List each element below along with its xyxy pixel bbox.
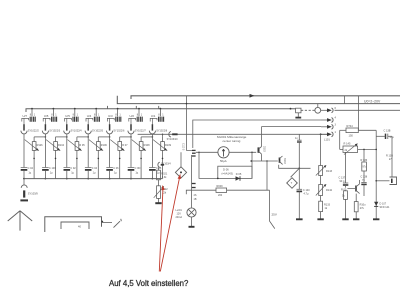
wire riser bus A-B at x344 [344, 96, 346, 104]
svg-text:U/2: U/2 [130, 114, 135, 118]
svg-text:(=AA143): (=AA143) [222, 172, 234, 176]
diode pin [44, 124, 46, 130]
trimmer arrow [68, 140, 82, 151]
wire lamp row to R009 [186, 190, 216, 194]
wire trimmer link [56, 136, 67, 138]
capacitor C 103 [42, 167, 49, 169]
capacitor 1n [295, 134, 302, 145]
svg-text:97o: 97o [363, 166, 368, 169]
svg-text:R104: R104 [58, 144, 65, 147]
resistor R009 [216, 185, 227, 197]
svg-text:8: 8 [30, 114, 32, 117]
wire contact to pin [151, 118, 153, 124]
junction dot rail [160, 108, 162, 110]
connector contact wire [65, 118, 72, 121]
trimmer arrow [132, 140, 146, 151]
svg-text:40: 40 [78, 225, 81, 229]
connector contact wire [129, 118, 136, 121]
svg-text:SY1022/8: SY1022/8 [156, 130, 168, 133]
connector socket right edge [375, 177, 396, 185]
trimmer arrow [46, 140, 60, 151]
wire cathode down [66, 134, 68, 167]
ground bar chain [155, 202, 161, 204]
antenna symbol [8, 211, 33, 231]
inductor winding 3 [262, 126, 321, 128]
svg-text:R143: R143 [326, 170, 333, 173]
wire rail drop [95, 109, 97, 117]
svg-text:U/4: U/4 [87, 114, 92, 118]
wire trimmer bottom [119, 150, 121, 178]
wire rail drop [31, 109, 33, 117]
capacitor C138b 47u [376, 129, 394, 177]
svg-text:SY103/4: SY103/4 [161, 163, 171, 166]
diode pin [109, 124, 111, 130]
tuning stage 7 [149, 108, 171, 180]
svg-text:C 06: C 06 [113, 167, 119, 170]
wire capacitor down [87, 171, 89, 179]
red arrow to TP1 diamond [160, 174, 181, 272]
svg-text:SY103/9: SY103/9 [28, 191, 39, 195]
svg-text:4: 4 [335, 117, 337, 120]
wire trimmer link [34, 136, 45, 138]
wire trimmer link [141, 136, 152, 138]
junction dot bus [152, 178, 154, 180]
svg-text:1: 1 [119, 114, 121, 117]
connector contact wire [150, 118, 157, 121]
wire chain [158, 167, 160, 170]
trimmer arrow [153, 140, 167, 151]
capacitor pair plates [52, 117, 54, 122]
junction arrow on bus A [250, 94, 255, 98]
wire bus line A [131, 96, 400, 99]
wire supply drop down [266, 161, 268, 190]
wire contact to pin [130, 118, 132, 124]
svg-text:200: 200 [218, 194, 223, 197]
trimmer R142 [316, 184, 333, 196]
capacitor pair plates [73, 117, 75, 122]
svg-text:4S: 4S [194, 194, 197, 197]
wire T3 emitter to node [279, 165, 311, 169]
svg-text:R106: R106 [101, 144, 108, 147]
wire cathode down [87, 134, 89, 167]
svg-text:1µ: 1µ [114, 172, 117, 175]
tuning capacitor rotor circle [315, 104, 321, 114]
svg-text:SY1022/5: SY1022/5 [92, 130, 104, 133]
wire 25V open end [270, 190, 275, 228]
resistor R104 27k [354, 194, 366, 219]
capacitor pair plates [94, 117, 96, 122]
svg-text:1µ: 1µ [50, 172, 53, 175]
svg-text:C 05: C 05 [156, 167, 162, 170]
wire trimmer top [162, 137, 164, 142]
svg-text:C 04: C 04 [92, 167, 98, 170]
svg-text:C 140: C 140 [303, 189, 310, 192]
svg-text:302/2: 302/2 [263, 146, 265, 152]
svg-text:C 04: C 04 [28, 167, 34, 170]
svg-text:8: 8 [115, 114, 117, 117]
connector contact wire [43, 118, 50, 121]
ground bar D107 col [373, 218, 379, 220]
junction dot bus [109, 178, 111, 180]
svg-text:C113 5: C113 5 [182, 143, 184, 151]
wire trimmer link [120, 136, 131, 138]
inductor winding 4 L101 [321, 133, 327, 135]
inductor winding 1 [321, 109, 327, 111]
wire capacitor down [44, 171, 46, 179]
svg-text:SY1022/4: SY1022/4 [71, 130, 83, 133]
wire capacitor down [66, 171, 68, 179]
capacitor pair plates [137, 117, 139, 122]
wire T2 emitter to T3 base [251, 160, 277, 162]
svg-text:C 103: C 103 [49, 167, 56, 170]
ground bar lamp [191, 217, 193, 226]
wire capacitor down [109, 171, 111, 179]
svg-text:1: 1 [34, 114, 36, 117]
resistor R136 [361, 149, 368, 171]
svg-text:SY1022/6: SY1022/6 [113, 130, 125, 133]
test point diamond TP1 [175, 152, 186, 178]
capacitor C140 [296, 189, 310, 219]
svg-text:150: 150 [349, 134, 354, 138]
wire trimmer top [55, 137, 57, 142]
junction dot bus [87, 178, 89, 180]
wire line to L101 [138, 133, 328, 135]
tuning stage 6 [128, 108, 154, 180]
trimmer arrow [25, 140, 39, 151]
trimmer resistor R106 [97, 142, 101, 151]
meter Mx001 [218, 147, 229, 164]
wire trimmer top [119, 137, 121, 142]
wire contact to pin [109, 118, 111, 124]
tuning stage 5 [106, 108, 132, 180]
svg-text:3: 3 [335, 123, 337, 126]
wire rail drop [138, 109, 140, 117]
svg-text:8: 8 [94, 114, 96, 117]
svg-text:1µ: 1µ [135, 172, 138, 175]
svg-text:1: 1 [77, 114, 79, 117]
svg-text:L101: L101 [324, 138, 330, 142]
test point diamond TP2 [287, 168, 300, 188]
wire trimmer bottom [33, 150, 35, 178]
trimmer arrow [89, 140, 103, 151]
svg-text:R 145: R 145 [344, 142, 351, 146]
svg-text:R 07: R 07 [122, 144, 128, 147]
svg-text:U/3: U/3 [108, 114, 113, 118]
connector SY103/4 [158, 162, 171, 167]
junction dot rail [53, 108, 55, 110]
junction dot rail [95, 108, 97, 110]
junction dot bus [45, 178, 47, 180]
svg-text:8: 8 [73, 114, 75, 117]
resistor R744 [340, 124, 377, 219]
wire cathode down [151, 134, 153, 167]
connector SY103/10 [167, 132, 179, 142]
junction dot rail [31, 108, 33, 110]
diode pin [87, 124, 89, 130]
diode pin [66, 124, 68, 130]
wire drop bus A to R744 line [358, 96, 360, 131]
svg-text:3,3k: 3,3k [162, 176, 167, 179]
frame box outer [45, 217, 102, 232]
wire contact to pin [44, 118, 46, 124]
trimmer arrow [110, 140, 124, 151]
dashed gang link [301, 109, 315, 111]
capacitor pair plates [116, 117, 118, 122]
svg-text:SY103/10: SY103/10 [167, 138, 179, 141]
wire cathode down [23, 134, 25, 167]
svg-text:U/7: U/7 [23, 114, 28, 118]
svg-text:SY1022/3: SY1022/3 [49, 130, 61, 133]
wire frame to switch [102, 221, 113, 223]
wire capacitor down [23, 171, 25, 179]
svg-text:8: 8 [137, 114, 139, 117]
ground bar [296, 218, 303, 220]
svg-text:C 13B: C 13B [384, 129, 391, 132]
junction dot rail [138, 108, 140, 110]
wire trimmer top [33, 137, 35, 142]
wire node down [298, 145, 300, 189]
svg-text:C 02: C 02 [70, 167, 76, 170]
wire trimmer bottom [76, 150, 78, 178]
connector contact wire [107, 118, 114, 121]
svg-text:6: 6 [335, 107, 337, 110]
switch blade [114, 221, 121, 227]
wire drop to meter transistor [187, 96, 193, 151]
svg-text:R021: R021 [161, 173, 168, 176]
capacitor C 04 [85, 167, 92, 169]
svg-text:1µ: 1µ [71, 172, 74, 175]
trimmer resistor R 07 [118, 142, 122, 151]
wire rail drop [117, 109, 119, 117]
svg-text:SFD 141: SFD 141 [380, 206, 390, 209]
diode D107 [374, 202, 390, 209]
capacitor C 04 [21, 167, 28, 169]
svg-text:1B: 1B [194, 198, 197, 201]
svg-text:1µ: 1µ [93, 172, 96, 175]
junction dot rail [117, 108, 119, 110]
wire trimmer top [140, 137, 142, 142]
junction dot bus [66, 178, 68, 180]
diode box D06 [218, 166, 252, 178]
svg-text:R 05: R 05 [79, 144, 85, 147]
ground bar R133 [317, 218, 323, 220]
svg-text:R133: R133 [324, 204, 331, 207]
svg-text:R142: R142 [326, 189, 333, 192]
svg-text:20mA: 20mA [176, 216, 183, 219]
svg-text:1: 1 [335, 131, 337, 134]
tuning stage 3 [64, 108, 89, 180]
svg-text:U/5: U/5 [44, 114, 49, 118]
svg-text:R009: R009 [217, 185, 224, 188]
wire rail drop [159, 109, 161, 117]
wire contact to pin [23, 118, 25, 124]
wire contact to pin [66, 118, 68, 124]
svg-text:1k: 1k [325, 207, 328, 210]
wire cathode down [109, 134, 111, 167]
connector cup [85, 131, 91, 134]
svg-text:1: 1 [98, 114, 100, 117]
svg-text:1µ: 1µ [157, 172, 160, 175]
connector cup [149, 131, 155, 134]
wire R009 to diagonal [227, 189, 270, 191]
diode D05 [236, 176, 241, 181]
diode pin [151, 124, 153, 130]
svg-text:25V: 25V [272, 213, 277, 217]
lamp Lu01 [176, 208, 197, 219]
svg-text:SY1022/7: SY1022/7 [135, 130, 147, 133]
svg-text:R126: R126 [37, 144, 44, 147]
connector pins 48 4S 1B [192, 184, 197, 201]
trimmer R022 [154, 186, 169, 199]
wire trimmer top [76, 137, 78, 142]
capacitor C137 [339, 152, 349, 187]
inductor winding 2 [321, 119, 327, 121]
svg-text:1: 1 [55, 114, 57, 117]
ground bar T4 col [353, 218, 359, 220]
diode pin [23, 124, 25, 130]
svg-text:U/5: U/5 [65, 114, 70, 118]
wire rail drop [52, 109, 54, 117]
resistor R133 [319, 201, 331, 211]
svg-text:27k: 27k [360, 207, 365, 210]
ground bar C137 col [342, 218, 348, 220]
svg-text:50µA: 50µA [220, 159, 227, 163]
svg-text:8: 8 [51, 114, 53, 117]
svg-text:SY1022/2: SY1022/2 [28, 130, 40, 133]
svg-text:1n: 1n [295, 137, 298, 140]
svg-text:90 p: 90 p [340, 180, 345, 183]
capacitor C 0N [128, 167, 135, 169]
wire trimmer top [97, 137, 99, 142]
svg-text:8: 8 [158, 114, 160, 117]
connector cup [42, 131, 48, 134]
wire stage supply rail [26, 109, 296, 112]
wire meter row [196, 151, 256, 153]
svg-text:U0=2~20V: U0=2~20V [364, 100, 381, 104]
wire cathode down [44, 134, 46, 167]
capacitor C138 [361, 171, 368, 196]
wire trimmer link [77, 136, 88, 138]
capacitor C 05 [149, 167, 156, 169]
tuning stage 4 [85, 108, 110, 180]
svg-text:Auf 4,5 Volt einstellen?: Auf 4,5 Volt einstellen? [109, 279, 189, 288]
transistor T2 [259, 127, 262, 162]
wire capacitor down [130, 171, 132, 179]
svg-text:4,7µ: 4,7µ [304, 193, 309, 196]
svg-text:R109: R109 [165, 144, 172, 147]
wire meter row to box [199, 152, 218, 178]
connector pins left of meter [192, 150, 196, 156]
tuning stage 1 [21, 108, 47, 180]
trimmer resistor R126 [32, 142, 36, 151]
svg-text:R108: R108 [144, 144, 151, 147]
transistor T4 [347, 180, 359, 194]
transistor T3 [280, 156, 286, 164]
junction dot bus [23, 178, 25, 180]
svg-text:302/2: 302/2 [283, 158, 285, 164]
trimmer resistor R108 [139, 142, 143, 151]
svg-text:U/1: U/1 [151, 114, 156, 118]
connector SY103/9 [20, 179, 38, 201]
resistor R021 [157, 170, 168, 180]
wire trimmer bottom [140, 150, 142, 178]
trimmer resistor R109 [161, 142, 165, 151]
diode pin [130, 124, 132, 130]
wire stub on rail 1 [107, 106, 109, 109]
svg-text:1: 1 [141, 114, 143, 117]
wire trimmer bottom [97, 150, 99, 178]
trimmer resistor R104 [54, 142, 58, 151]
wire stub on rail 2 [135, 106, 137, 109]
trimmer R143 [316, 165, 333, 176]
connector cup [21, 131, 27, 134]
capacitor pair plates [30, 117, 32, 122]
wire box top line C [193, 120, 321, 148]
svg-text:R744: R744 [347, 124, 354, 128]
wire T1 emitter down [191, 155, 193, 208]
svg-text:5k: 5k [342, 194, 345, 197]
trimmer R145 [340, 130, 377, 154]
trimmer resistor R 05 [75, 142, 79, 151]
junction dot bus [130, 178, 132, 180]
wire cathode down [130, 134, 132, 167]
red arrow to R022 [159, 185, 165, 272]
wire trimmer link [162, 134, 164, 137]
capacitor C 06 [106, 167, 113, 169]
wire bus line B [117, 96, 400, 104]
wire contact to pin [87, 118, 89, 124]
svg-text:center tuning: center tuning [223, 139, 241, 143]
svg-text:C 0N: C 0N [135, 167, 141, 170]
svg-text:R10u: R10u [360, 203, 367, 206]
wire capacitor down [151, 171, 153, 179]
svg-text:1: 1 [162, 114, 164, 117]
capacitor C 02 [64, 167, 71, 169]
svg-text:D 06: D 06 [223, 168, 229, 172]
connector cup [128, 131, 134, 134]
wire stub on rail 3 [158, 106, 160, 109]
connector cup [64, 131, 70, 134]
svg-text:D 107: D 107 [380, 203, 387, 206]
trimmer capacitor gang [290, 108, 302, 118]
capacitor pair plates [159, 117, 161, 122]
wire trimmer link [98, 136, 109, 138]
connector contact wire [86, 118, 93, 121]
wire rail drop [74, 109, 76, 117]
svg-text:D 05: D 05 [236, 172, 242, 176]
connector contact wire [22, 118, 29, 121]
wire stage bottom bus [24, 178, 163, 180]
wire trimmer bottom [162, 150, 164, 178]
svg-text:1µ: 1µ [28, 172, 31, 175]
connector cup [107, 131, 113, 134]
wire drop from L101 row [320, 134, 322, 165]
tuning stage 2 [42, 108, 68, 180]
wire trimmer bottom [55, 150, 57, 178]
resistor R100 [341, 188, 347, 218]
frame box inner [61, 222, 89, 229]
junction dot rail [74, 108, 76, 110]
